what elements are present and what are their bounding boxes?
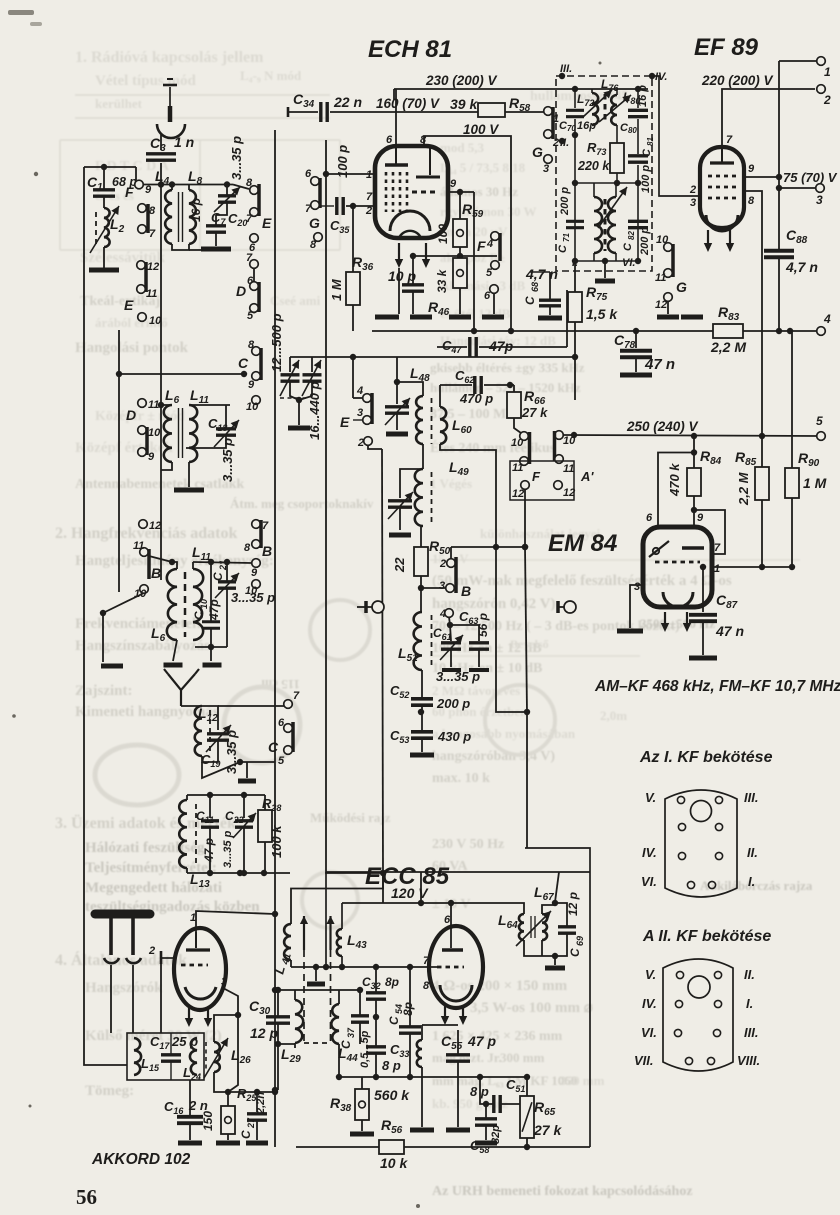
- svg-text:B: B: [461, 583, 471, 599]
- svg-text:IV.: IV.: [655, 71, 667, 83]
- svg-text:9: 9: [251, 567, 258, 579]
- svg-text:B: B: [151, 565, 161, 581]
- contact F pins 10-11-12: [520, 432, 529, 441]
- svg-text:8: 8: [420, 134, 427, 146]
- EF89 arrows: [707, 230, 709, 244]
- folded dipole antenna: [95, 910, 150, 919]
- svg-text:560 k: 560 k: [374, 1087, 410, 1103]
- ground under C7: [201, 247, 231, 252]
- contact E pins 4-3-2: [363, 394, 372, 403]
- contact C pins 7-6-5 right: [284, 700, 293, 709]
- svg-text:9: 9: [148, 451, 155, 463]
- svg-text:3500 ±500 Hz: 3500 ±500 Hz: [640, 616, 715, 631]
- contact B pin 10: [252, 396, 261, 405]
- wire left column in box: [574, 135, 576, 261]
- svg-text:10: 10: [148, 427, 161, 439]
- wire B contact to ground: [103, 593, 144, 613]
- svg-text:Hangszórók: Hangszórók: [85, 980, 163, 996]
- svg-text:II.: II.: [747, 845, 758, 860]
- svg-text:mm mag, L₆₃ FM KF 1060: mm mag, L₆₃ FM KF 1060: [432, 1073, 577, 1088]
- svg-text:6: 6: [278, 717, 285, 729]
- svg-text:Éles 240 mm feé ikus: Éles 240 mm feé ikus: [430, 439, 556, 456]
- bottom bus: [296, 1146, 379, 1148]
- svg-text:7: 7: [262, 520, 269, 532]
- svg-text:C: C: [239, 1130, 253, 1139]
- ECC85L plate bar: [195, 932, 197, 948]
- svg-text:8: 8: [244, 542, 251, 554]
- pickup terminal left: [364, 601, 368, 613]
- capacitor C33 8p: [366, 1047, 386, 1053]
- grid bus y967: [290, 960, 292, 967]
- ECC85L arrows: [188, 1007, 190, 1019]
- svg-text:7: 7: [246, 252, 253, 264]
- svg-text:VI.: VI.: [641, 1025, 657, 1040]
- svg-text:10: 10: [656, 234, 669, 246]
- contact B pin 9: [252, 559, 261, 568]
- svg-text:D: D: [236, 283, 246, 299]
- svg-text:5: 5: [816, 414, 823, 428]
- svg-text:230 (200) V: 230 (200) V: [425, 73, 498, 88]
- svg-text:160 (70) V: 160 (70) V: [376, 96, 440, 111]
- capacitor C69 12p: [555, 903, 567, 926]
- svg-text:200 p: 200 p: [436, 696, 470, 711]
- svg-text:47 p: 47 p: [467, 1033, 496, 1049]
- svg-text:C: C: [523, 296, 537, 305]
- svg-text:Cseé ami: Cseé ami: [270, 293, 321, 308]
- svg-text:12: 12: [655, 299, 667, 311]
- EM84 grid node wire: [712, 566, 762, 568]
- svg-text:10: 10: [511, 437, 524, 449]
- ECC85R cathode arc: [440, 985, 472, 1001]
- socket II pins: [676, 971, 683, 978]
- contact F pins 8-7: [146, 204, 150, 233]
- svg-text:1 Végés: 1 Végés: [430, 476, 472, 491]
- contact E pins 12-11-10: [137, 261, 146, 270]
- svg-text:Hálózati feszültség: Hálózati feszültség: [85, 840, 205, 856]
- ECC85L cathode arc: [185, 987, 216, 999]
- svg-text:EF 89: EF 89: [694, 34, 759, 61]
- contact G pins 6-7-8 and C35: [311, 177, 320, 186]
- capacitor C35: [337, 197, 343, 215]
- socket II center hole: [688, 976, 710, 998]
- svg-text:I.: I.: [748, 874, 755, 889]
- svg-text:Az I. KF bekötése: Az I. KF bekötése: [639, 749, 773, 766]
- svg-text:2 n: 2 n: [188, 1098, 208, 1113]
- contact box outline: [510, 461, 574, 500]
- bus under C10 C21: [195, 646, 227, 648]
- wire 100V line: [424, 136, 511, 331]
- wire cathode junction y256: [413, 255, 497, 257]
- svg-text:1: 1: [824, 65, 831, 79]
- svg-text:III.: III.: [744, 790, 758, 805]
- EF89 plate bar: [721, 147, 723, 162]
- svg-text:100 p: 100 p: [640, 165, 652, 193]
- dashed gang FM: [303, 950, 305, 1043]
- svg-text:1. Rádióvá kapcsolás jellem: 1. Rádióvá kapcsolás jellem: [75, 49, 264, 66]
- svg-text:C: C: [339, 1040, 353, 1049]
- contact D pins 11-10-9: [138, 399, 147, 408]
- wire left rail bottom: [277, 1044, 279, 1090]
- svg-text:6: 6: [247, 275, 254, 287]
- svg-text:10: 10: [246, 401, 259, 413]
- svg-text:3: 3: [357, 407, 363, 419]
- wire C34 lead: [287, 107, 290, 117]
- svg-text:3: 3: [543, 163, 549, 175]
- svg-text:7: 7: [423, 955, 430, 967]
- capacitor C19 trimmer: [202, 706, 218, 730]
- svg-text:C: C: [557, 244, 569, 253]
- capacitor C20 trimmer: [224, 181, 230, 187]
- contact C pins 8-9 upper: [252, 347, 261, 356]
- svg-text:120 V: 120 V: [391, 885, 429, 901]
- svg-text:Középfr ± mód: Középfr ± mód: [95, 409, 185, 424]
- svg-text:gkisebb éltérés ±gy 335 kHz: gkisebb éltérés ±gy 335 kHz: [430, 360, 585, 375]
- svg-text:Az URH bemeneti fokozat kapcso: Az URH bemeneti fokozat kapcsolódásához: [432, 1184, 693, 1199]
- svg-text:220 (200) V: 220 (200) V: [701, 73, 774, 88]
- svg-text:68: 68: [530, 282, 540, 292]
- svg-text:9: 9: [748, 163, 755, 175]
- wire 250V line: [563, 435, 818, 436]
- svg-text:max. 10 k: max. 10 k: [432, 771, 490, 786]
- svg-text:8p: 8p: [401, 1002, 415, 1016]
- wire L11 top to B9: [193, 562, 252, 563]
- ECH81 cathode arrows: [398, 243, 400, 260]
- svg-text:C: C: [268, 739, 279, 755]
- svg-text:3: 3: [690, 197, 696, 209]
- inductor L24: [190, 1038, 197, 1075]
- wire box top to 120V: [420, 872, 422, 903]
- wire tuning to grid y357: [290, 356, 353, 358]
- contact D pins 7-6-5 upper: [250, 260, 259, 269]
- ECH81 pin6 riser: [395, 89, 397, 146]
- ECH81 pin9 wire: [448, 191, 474, 193]
- svg-text:mod 5,3: mod 5,3: [440, 140, 485, 155]
- svg-text:100 V: 100 V: [463, 122, 499, 137]
- wire left rail of box: [325, 872, 327, 967]
- svg-text:8p: 8p: [385, 975, 399, 989]
- svg-text:100: 100: [436, 224, 450, 244]
- svg-text:AM–KF 468 kHz, FM–KF 10,7 MHz: AM–KF 468 kHz, FM–KF 10,7 MHz: [594, 678, 840, 695]
- tube ECC85 left triode: [174, 928, 226, 1010]
- svg-text:Átm. meg csoportoknakív: Átm. meg csoportoknakív: [230, 496, 374, 511]
- svg-text:2: 2: [357, 437, 364, 449]
- svg-text:25 p: 25 p: [171, 1034, 198, 1049]
- antenna mast: [169, 87, 171, 106]
- svg-text:1: 1: [714, 563, 720, 575]
- svg-text:C: C: [238, 355, 249, 371]
- svg-text:3...35 p: 3...35 p: [222, 830, 234, 868]
- contact B pins 11-10 lower: [139, 520, 148, 529]
- svg-text:Bevelső: Bevelső: [510, 637, 549, 651]
- svg-text:12: 12: [512, 488, 524, 500]
- contact G pins 1-2-3 right: [544, 107, 553, 116]
- wire left outer vertical: [83, 167, 85, 592]
- svg-text:56: 56: [76, 1185, 97, 1209]
- ground stub gang: [315, 967, 317, 981]
- svg-text:8: 8: [248, 339, 255, 351]
- svg-text:EM 84: EM 84: [548, 530, 617, 557]
- svg-text:6: 6: [386, 134, 393, 146]
- svg-text:A skilábórczás rajza: A skilábórczás rajza: [700, 878, 813, 893]
- svg-text:2: 2: [439, 558, 446, 570]
- pickup terminal right: [556, 601, 560, 613]
- svg-text:47p: 47p: [488, 338, 514, 354]
- svg-text:27 k: 27 k: [533, 1122, 562, 1138]
- svg-text:1 M: 1 M: [803, 475, 827, 491]
- svg-text:4: 4: [439, 608, 446, 620]
- svg-text:E: E: [340, 414, 350, 430]
- wire top-left horizontals: [84, 166, 136, 168]
- svg-text:hullámon – 525 – 1520 kHz: hullámon – 525 – 1520 kHz: [430, 380, 581, 395]
- wire inner rails: [160, 185, 162, 581]
- svg-text:5: 5: [247, 310, 254, 322]
- svg-text:9: 9: [248, 379, 255, 391]
- wire rails mid: [274, 130, 276, 873]
- svg-text:220 k: 220 k: [577, 159, 610, 173]
- svg-text:L₄-₉ N mód: L₄-₉ N mód: [240, 68, 302, 83]
- svg-text:F: F: [532, 469, 541, 484]
- svg-text:12: 12: [149, 520, 161, 532]
- wire F12 down: [524, 489, 526, 547]
- svg-text:G: G: [676, 279, 687, 295]
- contact A' pins 10-11-12: [555, 431, 564, 440]
- svg-text:71: 71: [562, 233, 571, 242]
- svg-text:E: E: [262, 215, 272, 231]
- EF89 cathode arc: [706, 215, 738, 231]
- svg-text:D: D: [126, 407, 136, 423]
- svg-text:27 k: 27 k: [521, 405, 548, 420]
- svg-text:39 k: 39 k: [450, 96, 478, 112]
- svg-text:12...500 p: 12...500 p: [269, 313, 284, 372]
- svg-text:1: 1: [366, 169, 372, 181]
- svg-text:Tömeg:: Tömeg:: [85, 1083, 134, 1099]
- svg-text:8: 8: [149, 205, 156, 217]
- ECH81 pin2 wire C35: [346, 205, 375, 207]
- svg-text:12 p: 12 p: [566, 892, 580, 916]
- svg-text:11: 11: [146, 288, 157, 300]
- ECC85R grid dashes: [437, 966, 464, 969]
- svg-text:4,7 n: 4,7 n: [525, 266, 558, 282]
- trimmer capacitor across L48: [394, 379, 400, 385]
- wire y990 bus: [275, 989, 360, 991]
- svg-text:37: 37: [346, 1027, 356, 1038]
- capacitor C58 82p: [475, 1119, 497, 1125]
- wire L60 bottom to node: [440, 444, 527, 712]
- svg-text:VII.: VII.: [634, 1053, 654, 1068]
- wire node y547: [451, 546, 525, 548]
- svg-text:3...35 p: 3...35 p: [436, 669, 480, 684]
- svg-text:6: 6: [305, 168, 312, 180]
- svg-text:1 M: 1 M: [329, 278, 344, 301]
- svg-text:7: 7: [726, 134, 733, 146]
- trimmer across L49: [400, 469, 423, 498]
- wire L67 top from box: [555, 872, 559, 902]
- svg-text:11: 11: [512, 462, 523, 474]
- svg-text:rgyüllámon 30 W: rgyüllámon 30 W: [440, 204, 537, 219]
- wire plate to osc line: [196, 911, 275, 914]
- svg-text:7: 7: [366, 191, 373, 203]
- svg-text:4,7 n: 4,7 n: [785, 259, 818, 275]
- inductor L13: [179, 800, 187, 868]
- svg-text:200 p: 200 p: [639, 227, 651, 256]
- contact pin 10 below: [252, 580, 261, 589]
- svg-text:Hangolási pontok: Hangolási pontok: [75, 340, 189, 356]
- wire L11 bottom to ground: [188, 462, 190, 487]
- EM84 arrows: [664, 612, 666, 624]
- svg-text:III.: III.: [744, 1025, 758, 1040]
- svg-text:3,5 W-os 100 mm ⌀: 3,5 W-os 100 mm ⌀: [470, 1000, 593, 1016]
- wire rail x383: [382, 449, 383, 873]
- svg-text:33 k: 33 k: [435, 268, 449, 293]
- tube EF89: [700, 147, 744, 228]
- wire 230V line: [393, 89, 395, 100]
- svg-text:7: 7: [714, 542, 721, 554]
- main bus y331: [372, 330, 821, 332]
- svg-text:8: 8: [423, 980, 430, 992]
- wire osc feedback loop: [291, 873, 383, 924]
- EM84 loop wires: [658, 453, 694, 528]
- svg-text:8: 8: [748, 195, 755, 207]
- svg-text:11: 11: [133, 540, 144, 552]
- wire E2 to rail: [368, 445, 382, 449]
- svg-text:150: 150: [201, 1111, 215, 1131]
- tube ECH81: [375, 146, 448, 238]
- svg-text:9: 9: [145, 184, 152, 196]
- ECC85R plate bar: [442, 948, 463, 951]
- wire cluster top: [202, 762, 240, 778]
- svg-text:7: 7: [293, 690, 300, 702]
- ECH81 plate: [395, 146, 397, 164]
- inductor L26 variable: [205, 1042, 207, 1070]
- svg-text:16...440 p: 16...440 p: [307, 381, 322, 440]
- svg-text:C: C: [192, 611, 206, 620]
- svg-text:6: 6: [444, 914, 451, 926]
- ECC85L grid dashes: [181, 964, 208, 967]
- svg-text:L₆₄ 5 / 73,5 8 18: L₆₄ 5 / 73,5 8 18: [440, 160, 526, 175]
- capacitor C63 56p: [450, 625, 479, 641]
- inductor mid transformer: [593, 183, 595, 197]
- svg-text:kerülhet: kerülhet: [95, 96, 143, 111]
- svg-text:Vétel típus mód: Vétel típus mód: [95, 73, 196, 89]
- tube EM84: [643, 527, 712, 607]
- svg-text:V.: V.: [645, 967, 656, 982]
- ECH81 grid dashes: [385, 172, 388, 212]
- svg-text:9: 9: [697, 512, 704, 524]
- svg-text:6: 6: [484, 290, 491, 302]
- svg-text:VI.: VI.: [641, 874, 657, 889]
- svg-text:10: 10: [245, 585, 258, 597]
- svg-text:8: 8: [246, 177, 253, 189]
- svg-text:IV.: IV.: [642, 996, 657, 1011]
- ground under L2: [103, 247, 105, 268]
- wire C3 to node: [160, 163, 162, 185]
- contact F pin 9: [135, 180, 144, 189]
- svg-text:3...35 p: 3...35 p: [229, 136, 244, 180]
- svg-text:4 Ω-os 200 × 150 mm: 4 Ω-os 200 × 150 mm: [432, 978, 568, 994]
- svg-text:5: 5: [486, 267, 493, 279]
- svg-text:3: 3: [221, 976, 227, 988]
- svg-text:G: G: [309, 215, 320, 231]
- socket I pins: [677, 796, 684, 803]
- svg-text:AKKORD 102: AKKORD 102: [91, 1151, 191, 1168]
- svg-text:470 p: 470 p: [459, 391, 493, 406]
- EF89 grid dash rows: [708, 175, 736, 178]
- svg-text:7: 7: [305, 203, 312, 215]
- resistor R46 33k: [459, 247, 461, 258]
- wire x275 rail to bottom: [274, 873, 276, 1147]
- wire 230V into box: [556, 88, 648, 90]
- socket I center hole: [691, 801, 712, 822]
- ECH81 cathode arcs: [390, 211, 430, 231]
- svg-text:47 n: 47 n: [644, 356, 675, 373]
- svg-text:430 p: 430 p: [437, 729, 471, 744]
- capacitor C68: [549, 272, 551, 299]
- svg-text:IV.: IV.: [642, 845, 657, 860]
- svg-text:3: 3: [634, 581, 640, 593]
- inductor L15: [134, 1038, 141, 1075]
- svg-text:3: 3: [439, 580, 445, 592]
- svg-text:Frekvenciámenetel:: Frekvenciámenetel:: [75, 616, 201, 632]
- contact pin 4 and C63: [445, 609, 454, 618]
- svg-text:VIII.: VIII.: [737, 1053, 760, 1068]
- svg-text:2,2 M: 2,2 M: [736, 471, 751, 506]
- svg-text:1,5 k: 1,5 k: [586, 306, 618, 322]
- svg-text:8: 8: [310, 239, 317, 251]
- svg-text:16p: 16p: [577, 120, 596, 132]
- svg-text:3...35 p: 3...35 p: [220, 438, 235, 482]
- svg-text:81: 81: [646, 137, 655, 146]
- svg-text:7: 7: [246, 213, 253, 225]
- svg-text:69: 69: [575, 936, 585, 946]
- wire L26 bottom to R25: [214, 1072, 228, 1092]
- svg-text:22: 22: [392, 557, 407, 573]
- svg-text:B: B: [262, 543, 272, 559]
- svg-text:300 mm: 300 mm: [500, 1050, 545, 1065]
- svg-text:F: F: [125, 184, 134, 200]
- inductor L2 variable: [104, 208, 110, 247]
- svg-text:2: 2: [689, 184, 696, 196]
- svg-text:G: G: [532, 144, 543, 160]
- svg-text:II.: II.: [744, 967, 755, 982]
- svg-text:2,0m: 2,0m: [600, 708, 627, 723]
- EM84 electrodes: [649, 541, 669, 557]
- svg-text:C: C: [568, 948, 582, 957]
- svg-text:100 k: 100 k: [269, 825, 284, 858]
- svg-text:Működési rajz: Működési rajz: [310, 810, 391, 825]
- svg-text:3: 3: [816, 193, 823, 207]
- wire pin9 to terminal1 node: [744, 176, 779, 178]
- wire pin8 to R85 rail: [744, 191, 762, 467]
- wire terminal1 down to pin9: [778, 61, 780, 177]
- svg-text:E: E: [124, 297, 134, 313]
- svg-text:47 p: 47 p: [202, 838, 216, 863]
- svg-text:2: 2: [148, 945, 155, 957]
- wire grid down to box: [160, 964, 162, 1033]
- svg-text:VI.: VI.: [622, 257, 635, 269]
- svg-text:ECH 81: ECH 81: [368, 36, 452, 63]
- wire R50 bottom to B3: [421, 587, 445, 589]
- wire dipole down: [110, 965, 112, 1033]
- svg-text:8 p: 8 p: [382, 1058, 401, 1073]
- capacitor C3 1n: [146, 154, 176, 160]
- svg-text:11: 11: [148, 399, 159, 411]
- svg-text:Középf értekek: Középf értekek: [75, 440, 174, 456]
- svg-text:9: 9: [450, 178, 457, 190]
- terminals 1 2 top right: [817, 57, 826, 66]
- svg-text:75 (70) V: 75 (70) V: [783, 170, 838, 185]
- wire row y261 and ground: [575, 260, 638, 262]
- svg-text:F: F: [477, 238, 486, 254]
